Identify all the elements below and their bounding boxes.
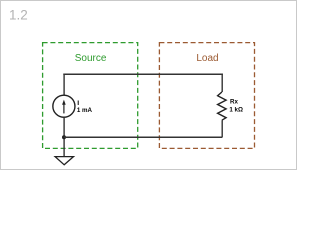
wire: left vertical from current source bottom through junction to ground xyxy=(63,117,65,156)
wire: right vertical from top wire to resistor top xyxy=(221,74,223,93)
current source value label 1 mA xyxy=(77,107,93,114)
svg-text:I: I xyxy=(77,100,79,107)
current source I xyxy=(53,95,75,117)
wire: left vertical from top wire down to current source top xyxy=(63,74,65,96)
ground xyxy=(55,157,73,165)
junction node dot xyxy=(62,135,66,139)
wire: top horizontal from current source to resistor xyxy=(63,73,223,75)
svg-text:Load: Load xyxy=(196,53,218,64)
resistor value label 1 kOhm xyxy=(229,107,243,114)
svg-text:Rx: Rx xyxy=(230,99,238,106)
resistor name label Rx xyxy=(230,99,238,106)
svg-text:1 mA: 1 mA xyxy=(77,107,93,114)
load region box (brown dashed) xyxy=(159,43,254,149)
source region label "Source" xyxy=(75,53,107,64)
load region label "Load" xyxy=(196,53,218,64)
svg-text:Source: Source xyxy=(75,53,107,64)
source region box (green dashed) xyxy=(43,43,138,149)
wire: right vertical from resistor bottom to bottom wire xyxy=(221,120,223,137)
figure number label 1.2 xyxy=(9,7,28,22)
wire: bottom horizontal from junction to resistor xyxy=(64,136,222,138)
resistor Rx xyxy=(218,92,227,120)
svg-text:1 kΩ: 1 kΩ xyxy=(229,107,243,114)
svg-text:1.2: 1.2 xyxy=(9,7,28,22)
current source name label I xyxy=(77,100,79,107)
